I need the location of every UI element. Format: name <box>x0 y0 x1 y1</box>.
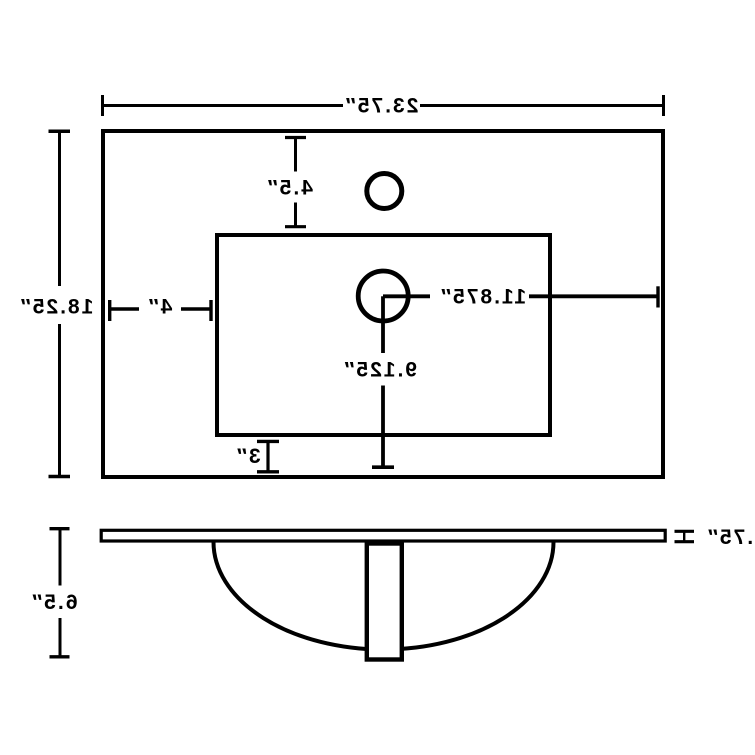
thickness dimension .75 top tick <box>675 530 695 533</box>
depth dimension line 18.25 upper segment <box>58 131 61 286</box>
width dimension label 23.75 (mirrored) <box>344 95 419 118</box>
svg-text:9.125″: 9.125″ <box>342 359 417 382</box>
drain horizontal dimension 11.875 end tick <box>656 286 659 307</box>
svg-text:18.25″: 18.25″ <box>19 296 94 319</box>
svg-text:4.5″: 4.5″ <box>266 177 313 200</box>
drain horizontal dimension 11.875 left segment <box>383 294 430 298</box>
drain vertical dimension 9.125 upper segment <box>381 296 385 353</box>
rim inset dimension 4 right tick <box>209 300 212 321</box>
width dimension line 23.75 left segment <box>103 104 344 107</box>
depth dimension line 18.25 lower segment <box>58 324 61 477</box>
faucet hole <box>367 174 402 209</box>
drain horizontal label 11.875 (mirrored) <box>439 286 526 309</box>
svg-text:11.875″: 11.875″ <box>439 286 526 309</box>
rim inset label 4 (mirrored) <box>147 296 173 319</box>
section view countertop slab <box>101 530 665 541</box>
sink bowl rim rectangle <box>217 235 550 435</box>
section height dimension 6.5 upper segment <box>59 529 62 586</box>
section height dimension 6.5 bottom tick <box>50 655 70 658</box>
rim inset dimension 4 left tick <box>108 300 111 321</box>
bottom inset label 3 (mirrored) <box>235 445 261 468</box>
section height label 6.5 (mirrored) <box>30 591 77 614</box>
svg-text:4″: 4″ <box>147 296 173 319</box>
depth dimension line 18.25 bottom tick <box>49 475 71 479</box>
drain hole <box>358 271 408 321</box>
thickness label .75 (mirrored) <box>706 526 753 549</box>
faucet offset dimension 4.5 lower segment <box>294 203 297 227</box>
bottom inset dimension 3 bottom tick <box>257 470 279 473</box>
drain vertical dimension 9.125 end tick <box>372 465 394 469</box>
svg-text:6.5″: 6.5″ <box>30 591 77 614</box>
width dimension line 23.75 left tick <box>101 95 104 116</box>
width dimension line 23.75 right tick <box>662 95 665 116</box>
section view drain pipe <box>367 544 402 660</box>
rim inset dimension 4 right segment <box>181 307 211 310</box>
width dimension line 23.75 right segment <box>420 104 664 107</box>
section height dimension 6.5 top tick <box>50 527 70 530</box>
drain vertical label 9.125 (mirrored) <box>342 359 417 382</box>
drain horizontal dimension 11.875 right segment <box>529 294 658 298</box>
vanity top outline rectangle <box>103 131 663 477</box>
faucet offset dimension 4.5 upper segment <box>294 138 297 172</box>
rim inset dimension 4 left segment <box>110 307 139 310</box>
section view bowl curve <box>214 542 554 650</box>
bottom inset dimension 3 line <box>266 441 269 471</box>
svg-text:3″: 3″ <box>235 445 261 468</box>
depth dimension line 18.25 top tick <box>49 129 71 133</box>
drain vertical dimension 9.125 lower segment <box>381 386 385 468</box>
faucet offset dimension 4.5 bottom tick <box>285 225 306 228</box>
bottom inset dimension 3 top tick <box>257 440 279 443</box>
faucet offset label 4.5 (mirrored) <box>266 177 313 200</box>
faucet offset dimension 4.5 top tick <box>285 136 306 139</box>
thickness dimension .75 bottom tick <box>675 540 695 543</box>
svg-text:.75″: .75″ <box>706 526 753 549</box>
section height dimension 6.5 lower segment <box>59 618 62 657</box>
svg-text:23.75″: 23.75″ <box>344 95 419 118</box>
depth dimension label 18.25 (mirrored) <box>19 296 94 319</box>
thickness dimension .75 line <box>683 531 685 541</box>
